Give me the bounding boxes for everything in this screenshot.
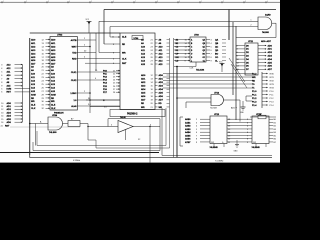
IC U706 refdes box bbox=[132, 36, 143, 40]
resistor R701 bbox=[68, 118, 80, 127]
svg-text:22: 22 bbox=[113, 73, 115, 75]
svg-text:2: 2 bbox=[251, 25, 252, 27]
svg-text:A0B0: A0B0 bbox=[185, 118, 191, 121]
svg-text:5: 5 bbox=[1, 71, 2, 73]
wire bus vertical x173.5 bbox=[173, 38, 175, 157]
sheet bottom border thick bbox=[0, 152, 159, 154]
svg-text:25: 25 bbox=[151, 53, 153, 55]
wire thick vertical x177 bbox=[176, 66, 178, 158]
svg-text:TXD: TXD bbox=[72, 53, 77, 55]
svg-text:L: L bbox=[191, 60, 192, 62]
wire oscillator output drop x150 bbox=[149, 126, 150, 163]
IC U706 left pin row C bbox=[86, 100, 120, 102]
IC U710 left pins bbox=[174, 38, 206, 62]
svg-text:WRT: WRT bbox=[72, 47, 78, 49]
svg-text:27: 27 bbox=[151, 60, 153, 62]
svg-text:1.5NC: 1.5NC bbox=[70, 93, 77, 95]
svg-text:9: 9 bbox=[211, 60, 212, 62]
svg-text:6: 6 bbox=[211, 50, 212, 52]
svg-text:40: 40 bbox=[84, 51, 86, 53]
svg-text:12: 12 bbox=[151, 75, 153, 77]
IC U710 bottom clock stub bbox=[190, 62, 197, 69]
svg-text:12: 12 bbox=[1, 109, 3, 111]
svg-text:RST: RST bbox=[122, 63, 127, 65]
svg-text:26: 26 bbox=[151, 57, 153, 59]
svg-text:ASTB: ASTB bbox=[71, 39, 77, 42]
svg-text:CLK: CLK bbox=[31, 108, 36, 110]
ground GND symbol right bbox=[240, 101, 246, 114]
connector P3 pin rows bbox=[252, 73, 275, 90]
svg-text:WR: WR bbox=[252, 77, 256, 79]
svg-text:B2: B2 bbox=[274, 126, 276, 128]
wire top bus thick horizontal y9.5 bbox=[104, 9, 276, 11]
svg-text:13: 13 bbox=[151, 78, 153, 80]
wire address bus horizontal y33 bbox=[30, 32, 120, 34]
wire vertical between transceivers bbox=[239, 100, 241, 122]
svg-text:GND: GND bbox=[234, 151, 239, 153]
svg-text:21: 21 bbox=[113, 70, 115, 72]
wire junction U710 to bus bbox=[174, 66, 196, 68]
svg-text:31: 31 bbox=[42, 105, 44, 107]
wire top bus vertical x99 bbox=[98, 21, 100, 52]
IC U703 right pin CLK1 bbox=[71, 70, 120, 74]
svg-text:28: 28 bbox=[42, 94, 44, 96]
svg-text:INT3: INT3 bbox=[270, 84, 274, 86]
svg-text:WR: WR bbox=[31, 101, 35, 103]
connector P3 pin column spine bbox=[261, 72, 263, 108]
svg-text:RD: RD bbox=[159, 103, 163, 105]
svg-text:BO: BO bbox=[215, 53, 219, 55]
IC U703 left pins group 2 bbox=[31, 59, 56, 110]
svg-text:13: 13 bbox=[185, 46, 187, 48]
svg-text:A?: A? bbox=[71, 118, 73, 121]
svg-text:ALE: ALE bbox=[122, 36, 127, 39]
wire U709 output bbox=[236, 23, 276, 37]
svg-text:15: 15 bbox=[185, 39, 187, 41]
wire U712 input B vertical bbox=[185, 102, 187, 108]
svg-text:ALE: ALE bbox=[31, 104, 36, 107]
svg-text:18: 18 bbox=[151, 96, 153, 98]
svg-text:9: 9 bbox=[1, 86, 2, 88]
IC U703 left pins group 1 bbox=[31, 38, 56, 59]
wires MCU rows from left bbox=[163, 74, 252, 89]
svg-text:7: 7 bbox=[247, 135, 248, 137]
svg-text:P1.1: P1.1 bbox=[270, 94, 274, 96]
svg-text:RST: RST bbox=[5, 125, 10, 127]
wire bus down from R701 bbox=[87, 124, 89, 141]
power VCC symbol right bbox=[219, 61, 225, 72]
wire top bus horizontal y26.5 bbox=[110, 26, 258, 28]
svg-text:19: 19 bbox=[151, 100, 153, 102]
bracket left of P1 rows bbox=[246, 96, 252, 101]
svg-text:17: 17 bbox=[42, 57, 44, 59]
svg-text:20: 20 bbox=[151, 103, 153, 105]
svg-text:1: 1 bbox=[251, 20, 252, 22]
svg-text:6: 6 bbox=[1, 75, 2, 77]
svg-text:AL40: AL40 bbox=[71, 105, 77, 108]
wire inverter input bbox=[88, 125, 118, 127]
svg-text:13: 13 bbox=[1, 112, 3, 114]
svg-text:8: 8 bbox=[196, 139, 197, 141]
svg-text:CLK: CLK bbox=[122, 58, 127, 60]
svg-text:23: 23 bbox=[113, 77, 115, 79]
svg-text:QD: QD bbox=[215, 50, 219, 52]
IC U713 body bbox=[210, 116, 227, 144]
svg-text:3: 3 bbox=[247, 122, 248, 124]
svg-text:11: 11 bbox=[228, 142, 230, 144]
sheet background bbox=[0, 0, 280, 163]
svg-text:A5B5: A5B5 bbox=[185, 134, 191, 137]
svg-text:13: 13 bbox=[228, 135, 230, 137]
IC U711 right pins with arrows bbox=[258, 44, 273, 71]
svg-text:2: 2 bbox=[196, 119, 197, 121]
inverter U705 body bbox=[118, 121, 133, 133]
svg-text:7.6.5MHz: 7.6.5MHz bbox=[215, 161, 223, 163]
svg-text:5: 5 bbox=[84, 45, 85, 47]
IC U711 left pins bbox=[236, 45, 250, 71]
svg-text:74LS08: 74LS08 bbox=[262, 31, 269, 34]
svg-text:2: 2 bbox=[247, 119, 248, 121]
svg-text:INT0: INT0 bbox=[270, 73, 274, 75]
wire top bus thick vertical x104 bbox=[103, 10, 105, 45]
svg-text:DN: DN bbox=[176, 57, 180, 59]
wires U713 to U714 with pin numbers bbox=[227, 119, 252, 144]
net IO/M row bbox=[1, 89, 29, 91]
wire vertical bus x90 bbox=[89, 34, 91, 114]
IC U703 right pin RXD bbox=[72, 57, 96, 61]
svg-text:B7: B7 bbox=[274, 142, 276, 144]
svg-text:U712: U712 bbox=[214, 92, 220, 94]
IC U703 left bus vertical thick bbox=[29, 38, 31, 155]
IC U706 top ALE pin bbox=[110, 36, 127, 39]
svg-text:8: 8 bbox=[247, 139, 248, 141]
svg-text:16: 16 bbox=[151, 89, 153, 91]
resistor R702 bottom right bbox=[250, 113, 276, 118]
svg-text:WR: WR bbox=[51, 101, 55, 103]
svg-text:CL: CL bbox=[203, 60, 205, 62]
svg-text:22: 22 bbox=[151, 43, 153, 45]
svg-text:P1.0: P1.0 bbox=[270, 91, 274, 93]
svg-text:5: 5 bbox=[211, 46, 212, 48]
IC U703 right pin TXD bbox=[72, 51, 96, 55]
svg-text:16: 16 bbox=[228, 126, 230, 128]
svg-text:WR: WR bbox=[122, 52, 126, 54]
wire bottom bus from left bus corner bbox=[30, 155, 272, 157]
IC U706 left port pins bbox=[103, 70, 120, 94]
wire nested bus corner 1 bbox=[33, 127, 160, 151]
wire inverter bottom stub bbox=[125, 130, 127, 141]
connector P1 pin rows bbox=[252, 90, 274, 107]
svg-text:17: 17 bbox=[228, 122, 230, 124]
svg-text:P1.3: P1.3 bbox=[270, 101, 274, 103]
wire R701 to bus bbox=[80, 123, 88, 125]
svg-text:U703: U703 bbox=[57, 34, 63, 36]
svg-text:32: 32 bbox=[42, 108, 44, 110]
svg-text:5: 5 bbox=[196, 129, 197, 131]
sheet top border ruler bbox=[0, 1, 280, 3]
wire U704 input bbox=[29, 121, 48, 125]
wire diagonal fan 2 bbox=[231, 64, 247, 88]
svg-text:B3: B3 bbox=[274, 129, 276, 131]
wire top bus vertical x110 bbox=[109, 27, 111, 38]
svg-text:15: 15 bbox=[151, 85, 153, 87]
svg-text:23: 23 bbox=[42, 77, 44, 79]
svg-text:P8156H-2: P8156H-2 bbox=[127, 114, 138, 116]
svg-text:4.19MHz: 4.19MHz bbox=[73, 160, 80, 162]
svg-text:QB: QB bbox=[215, 43, 219, 45]
IC U714 right pins bbox=[269, 119, 277, 144]
IC U703 right pin SID bbox=[70, 91, 90, 95]
bracket left of U713 rows bbox=[180, 117, 183, 146]
svg-text:41: 41 bbox=[1, 125, 3, 127]
svg-text:23: 23 bbox=[151, 46, 153, 48]
IC U703 right pin ASTB bbox=[71, 38, 96, 42]
svg-text:RD: RD bbox=[51, 98, 55, 100]
wire nested bus corner 3 bbox=[162, 108, 272, 155]
IC U703 right pin WRT bbox=[72, 45, 91, 49]
svg-text:RD: RD bbox=[141, 103, 145, 105]
wire right bus vertical x233 bbox=[232, 22, 234, 95]
svg-text:6: 6 bbox=[196, 132, 197, 134]
svg-text:28: 28 bbox=[151, 64, 153, 66]
svg-text:B5: B5 bbox=[274, 135, 276, 137]
svg-text:B6: B6 bbox=[274, 139, 276, 141]
svg-text:25: 25 bbox=[42, 84, 44, 86]
IC U706 right pins AD0-AD7 plus RD WR bbox=[141, 74, 170, 109]
svg-text:QC: QC bbox=[215, 46, 219, 48]
IC U714 body bbox=[252, 116, 269, 144]
svg-text:8: 8 bbox=[211, 57, 212, 59]
svg-text:15: 15 bbox=[42, 50, 44, 52]
svg-text:INT1: INT1 bbox=[270, 77, 274, 79]
wire U712 input B bbox=[186, 101, 211, 103]
svg-text:6: 6 bbox=[1, 92, 2, 94]
svg-text:RD: RD bbox=[122, 44, 126, 46]
svg-text:IO/M: IO/M bbox=[7, 89, 12, 91]
wire nested bus corner 2 bbox=[37, 108, 166, 146]
power VCC symbol top bbox=[86, 19, 92, 33]
svg-text:IO/M: IO/M bbox=[31, 94, 36, 96]
svg-text:A3B3: A3B3 bbox=[185, 128, 191, 131]
NAND gate U704 body bbox=[48, 117, 63, 130]
svg-text:3: 3 bbox=[196, 122, 197, 124]
svg-text:12: 12 bbox=[42, 39, 44, 41]
svg-text:U714: U714 bbox=[256, 113, 262, 116]
svg-text:25: 25 bbox=[113, 83, 115, 85]
svg-text:74LS08: 74LS08 bbox=[210, 108, 217, 110]
net RESET row bottom bbox=[1, 125, 81, 127]
svg-text:CO: CO bbox=[215, 57, 219, 59]
svg-text:QA: QA bbox=[215, 38, 219, 41]
svg-text:A2B2: A2B2 bbox=[185, 125, 191, 128]
svg-text:17: 17 bbox=[151, 93, 153, 95]
svg-text:18: 18 bbox=[42, 60, 44, 62]
svg-text:27: 27 bbox=[42, 91, 44, 93]
IC U706 body bbox=[120, 33, 155, 110]
ground symbol between transceivers bbox=[235, 140, 239, 147]
wire U712 input A with junction bbox=[176, 97, 211, 99]
svg-text:11: 11 bbox=[185, 53, 187, 55]
svg-text:22: 22 bbox=[42, 74, 44, 76]
svg-text:7: 7 bbox=[196, 135, 197, 137]
svg-text:10: 10 bbox=[185, 57, 187, 59]
svg-text:12: 12 bbox=[228, 139, 230, 141]
wire vertical bus x96 bbox=[95, 33, 97, 71]
svg-text:RXD: RXD bbox=[72, 59, 77, 61]
svg-text:11: 11 bbox=[1, 106, 3, 108]
svg-text:16: 16 bbox=[42, 53, 44, 55]
svg-text:2: 2 bbox=[84, 91, 85, 93]
svg-text:9: 9 bbox=[247, 142, 248, 144]
wire junction R701 inverter input bbox=[87, 126, 88, 127]
svg-text:28: 28 bbox=[113, 92, 115, 94]
svg-text:INT2: INT2 bbox=[270, 80, 274, 82]
svg-text:15: 15 bbox=[1, 119, 3, 121]
wire U712 output bbox=[224, 99, 241, 101]
svg-text:WR: WR bbox=[141, 107, 145, 109]
svg-text:RD: RD bbox=[252, 80, 256, 82]
svg-text:U704: U704 bbox=[52, 114, 58, 117]
IC U706 part number box 8155 bbox=[110, 110, 165, 117]
svg-text:CLK1: CLK1 bbox=[71, 72, 77, 74]
IC U706 right pins A8-A15 bbox=[141, 38, 170, 66]
wire diagonal fan 1 bbox=[229, 58, 245, 82]
wire right bus vertical x229 bbox=[228, 10, 230, 41]
svg-text:20: 20 bbox=[42, 67, 44, 69]
svg-text:5: 5 bbox=[111, 125, 112, 127]
IC U706 left control pins bbox=[85, 44, 127, 65]
svg-text:9: 9 bbox=[196, 142, 197, 144]
wire top bus horizontal y21.3 bbox=[99, 20, 258, 22]
svg-text:8: 8 bbox=[1, 82, 2, 84]
svg-text:12: 12 bbox=[185, 50, 187, 52]
wire bus vertical x169.5 bbox=[88, 38, 170, 148]
connector J1 pin rows group A bbox=[1, 63, 22, 87]
svg-text:16: 16 bbox=[1, 122, 3, 124]
svg-text:74LS00: 74LS00 bbox=[49, 131, 57, 134]
svg-text:A7B7: A7B7 bbox=[185, 141, 191, 144]
svg-text:19: 19 bbox=[42, 63, 44, 65]
svg-text:18: 18 bbox=[228, 119, 230, 121]
black letterbox bar bottom bbox=[0, 163, 280, 210]
svg-text:26: 26 bbox=[42, 87, 44, 89]
IC U703 right pin SOD bbox=[74, 98, 120, 102]
IC U706 left pin row 2.0 bbox=[90, 107, 120, 109]
svg-text:U713: U713 bbox=[214, 114, 220, 116]
svg-text:X2: X2 bbox=[138, 139, 140, 141]
svg-text:B0: B0 bbox=[274, 119, 276, 121]
svg-text:29: 29 bbox=[42, 98, 44, 100]
svg-text:5: 5 bbox=[1, 89, 2, 91]
svg-text:IO/M: IO/M bbox=[51, 94, 56, 96]
svg-text:21: 21 bbox=[151, 39, 153, 41]
svg-text:3: 3 bbox=[1, 64, 2, 66]
IC U710 right pins bbox=[206, 38, 226, 62]
svg-text:74LS196: 74LS196 bbox=[196, 68, 205, 71]
svg-text:B1: B1 bbox=[274, 122, 276, 124]
AND gate U709 body bbox=[258, 17, 272, 30]
svg-text:AD0~7: AD0~7 bbox=[231, 107, 237, 110]
svg-text:3: 3 bbox=[211, 39, 212, 41]
svg-text:A6B6: A6B6 bbox=[185, 138, 191, 141]
svg-text:LD: LD bbox=[176, 60, 179, 62]
svg-text:CLK2: CLK2 bbox=[71, 80, 77, 82]
svg-text:30: 30 bbox=[42, 101, 44, 103]
svg-text:6: 6 bbox=[247, 132, 248, 134]
wire U704 output bbox=[63, 123, 69, 125]
svg-text:A1B1: A1B1 bbox=[185, 121, 191, 124]
IC U703 right pin ALE bbox=[71, 104, 120, 108]
svg-text:RD: RD bbox=[31, 98, 35, 100]
svg-text:P1.2: P1.2 bbox=[270, 98, 274, 100]
IC U710 body bbox=[190, 37, 206, 62]
AND gate U712 body bbox=[211, 95, 224, 106]
svg-text:A4B4: A4B4 bbox=[185, 131, 191, 134]
wire J1 bus vertical bbox=[22, 65, 24, 123]
wire inverter feedback loop bbox=[108, 119, 160, 127]
svg-text:ALE: ALE bbox=[51, 104, 56, 107]
svg-text:U711: U711 bbox=[248, 41, 254, 43]
svg-text:21: 21 bbox=[42, 70, 44, 72]
svg-text:13: 13 bbox=[42, 43, 44, 45]
IC U713 bottom control pins bbox=[211, 142, 224, 148]
svg-text:7: 7 bbox=[211, 53, 212, 55]
svg-text:CLK: CLK bbox=[51, 108, 56, 110]
svg-text:26: 26 bbox=[113, 86, 115, 88]
svg-text:RST: RST bbox=[7, 92, 12, 94]
wire U704 input vertical bbox=[35, 124, 37, 146]
IC U703 body bbox=[50, 37, 77, 111]
IC U703 right pin CLK2 bbox=[71, 78, 104, 82]
connector J1 pin rows group B bbox=[1, 102, 22, 124]
svg-text:AQRD: AQRD bbox=[265, 13, 271, 16]
svg-text:7: 7 bbox=[1, 79, 2, 81]
svg-text:2: 2 bbox=[84, 38, 85, 40]
svg-text:15: 15 bbox=[228, 129, 230, 131]
svg-text:10: 10 bbox=[1, 103, 3, 105]
svg-text:21: 21 bbox=[151, 107, 153, 109]
wire right bus vertical x236 bbox=[235, 26, 237, 120]
svg-text:5: 5 bbox=[247, 129, 248, 131]
net RST row bbox=[1, 92, 29, 94]
svg-text:9: 9 bbox=[185, 60, 186, 62]
IC U711 body bbox=[245, 43, 258, 75]
svg-text:AD0~AD7: AD0~AD7 bbox=[261, 40, 272, 43]
IC U713 left pins bbox=[185, 118, 210, 144]
svg-text:27: 27 bbox=[113, 89, 115, 91]
IC U714 bottom control pin bbox=[253, 142, 266, 148]
